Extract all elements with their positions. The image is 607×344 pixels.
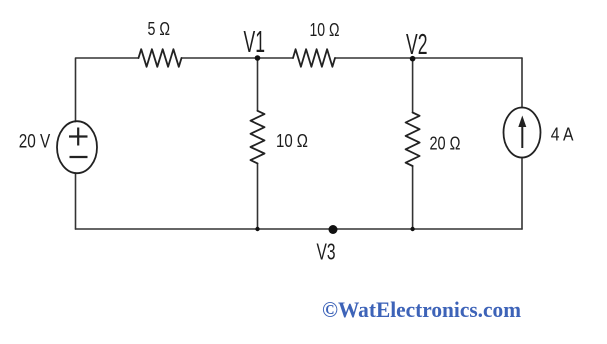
junction dot: V2 branch at bottom bus	[410, 227, 414, 231]
wire: V2 branch upper stub	[412, 59, 414, 113]
svg-text:10 Ω: 10 Ω	[310, 20, 340, 40]
svg-text:©WatElectronics.com: ©WatElectronics.com	[322, 297, 521, 322]
svg-text:4 A: 4 A	[551, 124, 574, 145]
wire: top-left horizontal (source to 5ohm)	[76, 58, 139, 122]
wire: right vertical (current source to bottom corner)	[521, 158, 523, 230]
svg-text:5 Ω: 5 Ω	[148, 18, 171, 39]
wire: left vertical (source bottom to bottom-left corner)	[75, 173, 77, 229]
svg-text:V1: V1	[244, 25, 266, 59]
wire: V1 branch upper stub	[257, 58, 259, 111]
svg-text:V3: V3	[317, 239, 336, 265]
node V1 (junction dot)	[255, 55, 261, 61]
svg-text:V2: V2	[406, 29, 428, 61]
junction dot: V1 branch at bottom bus	[255, 227, 259, 231]
voltage source VS 20V	[57, 121, 97, 173]
svg-text:20 Ω: 20 Ω	[430, 133, 461, 154]
node V3 (large dot on bottom bus)	[329, 225, 338, 234]
node V2 (junction dot)	[410, 56, 416, 62]
wire: top segment 5ohm to node V1 to 10ohm	[182, 57, 294, 59]
resistor R1 5 ohm (top left, horizontal)	[139, 49, 182, 67]
svg-text:20 V: 20 V	[19, 131, 51, 153]
wire: V2 branch lower stub	[412, 166, 414, 229]
wire: bottom horizontal bus (node V3)	[76, 228, 523, 230]
wire: right vertical (corner to current source)	[521, 58, 523, 108]
resistor R4 20 ohm (vertical, V2 branch)	[406, 113, 420, 167]
wire: V1 branch lower stub	[257, 163, 259, 229]
resistor R3 10 ohm (vertical, V1 branch)	[251, 111, 265, 164]
svg-text:10 Ω: 10 Ω	[276, 130, 308, 151]
wire: top segment 10ohm to node V2 to top-right corner	[335, 57, 522, 59]
resistor R2 10 ohm (top middle, horizontal)	[293, 49, 335, 67]
current source IS 4A	[504, 108, 541, 158]
